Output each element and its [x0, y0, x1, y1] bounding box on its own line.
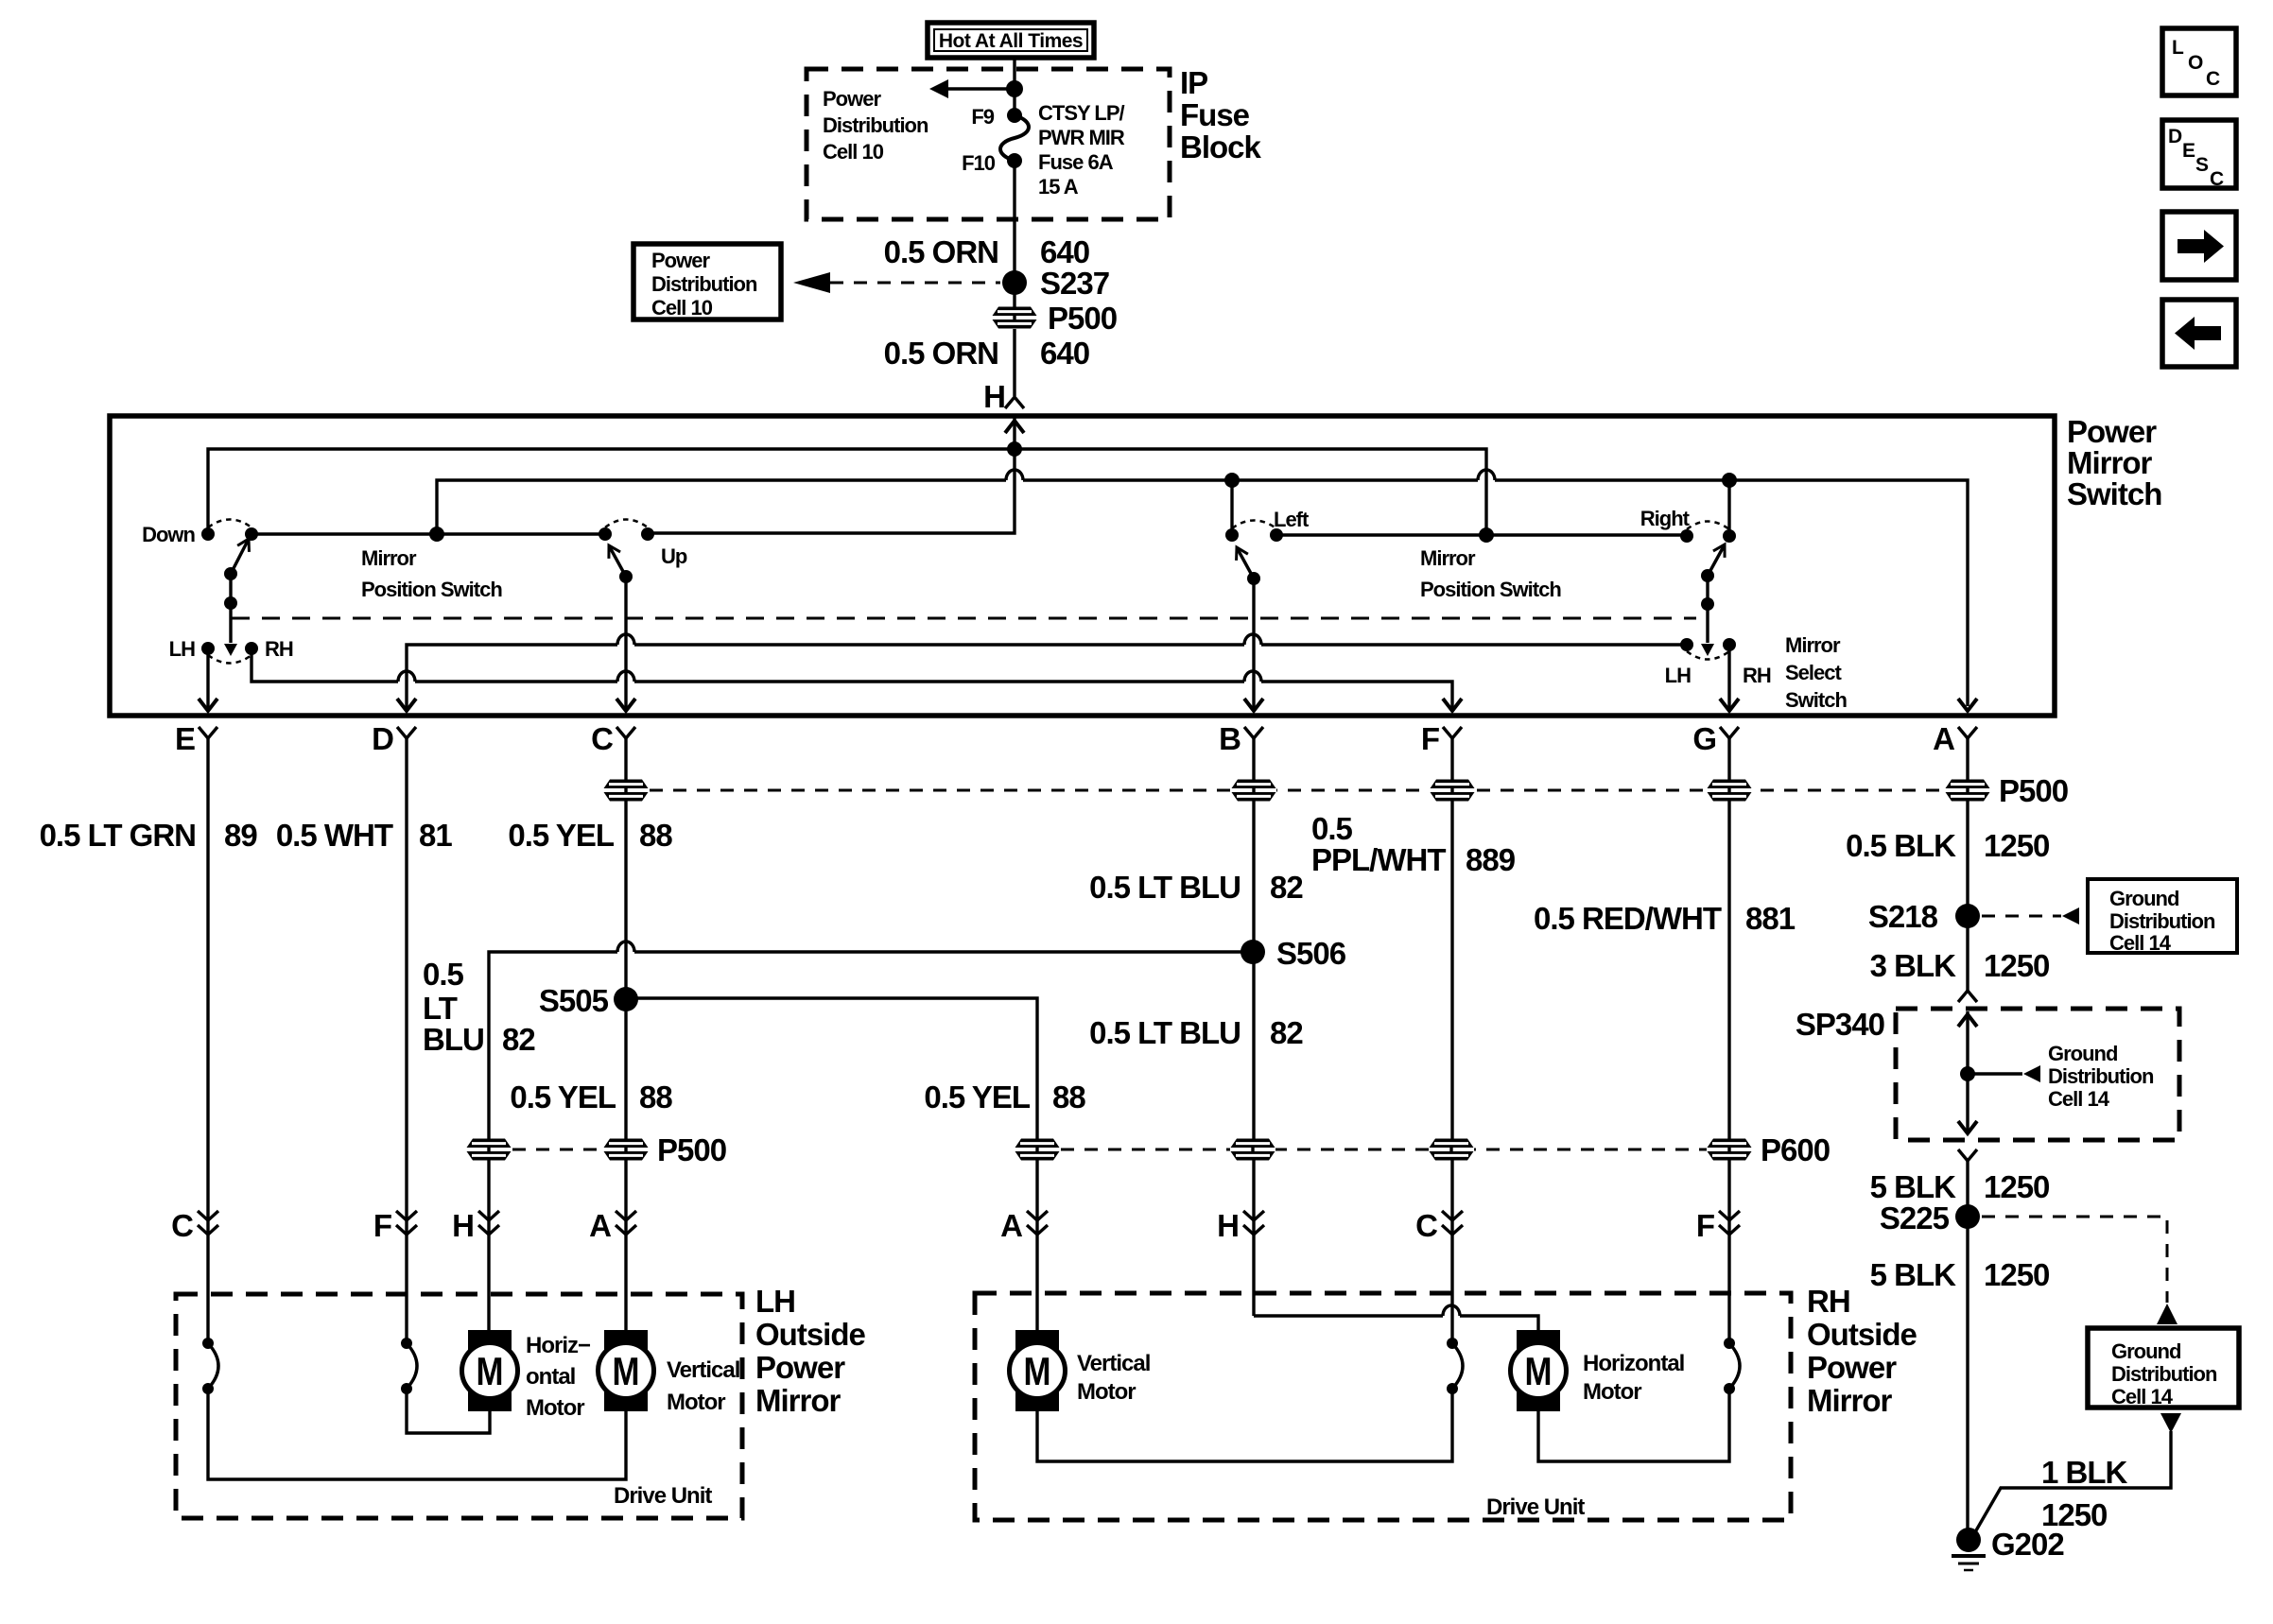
dashed reference arrow to Power Distribution [793, 272, 1000, 293]
svg-text:RH: RH [265, 637, 293, 661]
svg-text:0.5 RED/WHT: 0.5 RED/WHT [1534, 901, 1722, 936]
LH position switch common bar [252, 532, 605, 535]
LH drive contact C [202, 1338, 218, 1394]
hop of wire 2 over feed [1006, 470, 1023, 480]
connector RH F at P600 [1707, 1139, 1752, 1161]
svg-text:Drive Unit: Drive Unit [1486, 1494, 1585, 1520]
svg-text:Mirror: Mirror [361, 546, 417, 570]
node wire2/Right contact [1722, 473, 1737, 488]
wire LH F contact to horizontal motor [407, 1389, 490, 1433]
wire label 3 BLK 1250 [1870, 948, 2050, 983]
wire SP340 to G202 [1966, 1161, 1969, 1540]
switch contact Left [1225, 508, 1310, 542]
wire fuse to S237 [1013, 161, 1015, 283]
Vertical Motor label (LH) [667, 1357, 739, 1415]
svg-text:SP340: SP340 [1796, 1007, 1884, 1042]
hop over C wire [617, 942, 634, 952]
svg-text:Mirror: Mirror [1785, 633, 1841, 657]
wire label 0.5 LT BLU 82 (lower) [1089, 1015, 1303, 1050]
wire label 0.5 LT BLU 82 [1089, 870, 1303, 905]
Power Mirror Switch box [110, 416, 2055, 716]
svg-text:S225: S225 [1880, 1201, 1950, 1235]
LOC icon [2162, 28, 2236, 95]
connector RH H at P600 [1230, 1139, 1275, 1161]
svg-text:S506: S506 [1276, 936, 1346, 971]
svg-text:0.5 LT BLU: 0.5 LT BLU [1089, 1015, 1241, 1050]
arrow up at feed entry [1005, 421, 1024, 433]
wire label 0.5 WHT 81 [276, 818, 453, 853]
hop over C wire [617, 671, 634, 682]
connector B at P500 [1231, 780, 1276, 802]
wire S237 to P500 [1013, 283, 1015, 307]
svg-text:Cell 14: Cell 14 [2048, 1087, 2110, 1111]
node wire1/common bar [1479, 527, 1494, 543]
wire ground cell to G202 [1972, 1431, 2171, 1537]
svg-text:RH: RH [1807, 1284, 1850, 1319]
svg-text:0.5 BLK: 0.5 BLK [1846, 828, 1956, 863]
svg-text:F9: F9 [971, 105, 994, 129]
svg-text:Distribution: Distribution [651, 272, 757, 296]
svg-text:RH: RH [1743, 664, 1771, 687]
Ground Distribution Cell 14 box (S218) [2088, 879, 2237, 955]
svg-text:0.5 YEL: 0.5 YEL [924, 1080, 1030, 1114]
svg-text:LH: LH [169, 637, 195, 661]
pin H of RH mirror [1217, 1208, 1264, 1243]
DESC icon [2162, 120, 2236, 190]
select contact LH/RH (left) [169, 637, 293, 664]
svg-text:82: 82 [1270, 1015, 1303, 1050]
wire label 0.5 BLK 1250 [1846, 828, 2049, 863]
svg-text:L: L [2172, 37, 2184, 59]
svg-text:82: 82 [1270, 870, 1303, 905]
RH vertical motor M [1010, 1330, 1066, 1411]
dashed reference from S225 to ground cell [1982, 1217, 2178, 1324]
switch contact Right [1640, 507, 1736, 543]
Power Distribution Cell 10 box (left) [633, 244, 781, 320]
svg-text:1250: 1250 [1984, 948, 2049, 983]
wire to Left contact [1230, 480, 1233, 535]
connector LH H at P500 [466, 1139, 512, 1161]
wire D to LH mirror F [405, 738, 408, 1343]
connector P500 (feed) [992, 301, 1117, 336]
svg-text:PPL/WHT: PPL/WHT [1311, 842, 1446, 877]
svg-text:C: C [2210, 168, 2224, 190]
svg-text:CTSY LP/: CTSY LP/ [1038, 101, 1125, 125]
RH Outside Power Mirror label [1807, 1284, 1917, 1418]
wire from Hot box to fuse block [1013, 58, 1015, 89]
svg-text:Fuse 6A: Fuse 6A [1038, 150, 1114, 174]
Mirror Position Switch label (left) [361, 546, 502, 601]
svg-text:0.5 WHT: 0.5 WHT [276, 818, 393, 853]
pin H of Power Mirror Switch [983, 379, 1024, 414]
Ground Distribution Cell 14 box (G202) [2088, 1328, 2239, 1408]
node feed/wire1 junction [1007, 441, 1022, 457]
wire RH C contact to vertical motor [1037, 1389, 1452, 1461]
feed wire into switch (down to Up contact bar) [648, 416, 1015, 533]
svg-text:P500: P500 [1048, 301, 1117, 336]
svg-text:LH: LH [1665, 664, 1691, 687]
svg-text:Cell 10: Cell 10 [823, 140, 884, 164]
dashed reference to Ground Distribution [1982, 907, 2079, 924]
svg-text:A: A [1933, 721, 1954, 756]
wire C to LH mirror A [624, 738, 627, 1330]
svg-text:IP: IP [1180, 65, 1207, 100]
svg-text:C: C [591, 721, 613, 756]
pin G [1692, 721, 1739, 756]
LH Outside Power Mirror dashed box [176, 1294, 742, 1518]
splice S237 [1002, 266, 1109, 301]
wire F to RH mirror C [1450, 738, 1453, 1343]
svg-text:Outside: Outside [755, 1317, 865, 1352]
wire select LH to pin E [206, 648, 209, 709]
connector G at P500 [1707, 780, 1752, 802]
svg-text:5 BLK: 5 BLK [1870, 1257, 1957, 1292]
pin into SP340 [1958, 991, 1977, 1002]
pin arrows at box bottom [199, 699, 1977, 711]
SP340 internal bus [1958, 1011, 2040, 1134]
svg-text:O: O [2188, 52, 2203, 74]
svg-text:C: C [1415, 1208, 1437, 1243]
svg-text:0.5: 0.5 [1311, 811, 1353, 846]
svg-text:Motor: Motor [667, 1390, 725, 1415]
svg-text:5 BLK: 5 BLK [1870, 1169, 1957, 1204]
pin F [1421, 721, 1462, 756]
RH position switch common bar [1276, 533, 1687, 536]
svg-text:F10: F10 [962, 151, 996, 175]
wire S506 branch to LH mirror H [489, 952, 1253, 1330]
LH vertical motor M [599, 1330, 654, 1411]
wire label 0.5 PPL/WHT 889 [1311, 811, 1516, 877]
svg-text:0.5 ORN: 0.5 ORN [884, 336, 998, 371]
wire label 1 BLK 1250 [2041, 1455, 2128, 1532]
svg-text:889: 889 [1466, 842, 1516, 877]
movable contact Down/Up (left) [224, 536, 254, 580]
svg-text:1250: 1250 [1984, 1169, 2049, 1204]
svg-text:LH: LH [755, 1284, 795, 1319]
svg-text:Power: Power [651, 249, 710, 272]
wire RH F contact to horizontal motor [1538, 1389, 1729, 1461]
svg-text:Down: Down [142, 523, 195, 546]
svg-text:0.5 LT GRN: 0.5 LT GRN [40, 818, 196, 853]
wire label 0.5 RED/WHT 881 [1534, 901, 1796, 936]
pin H of LH mirror [452, 1208, 499, 1243]
svg-text:Mirror: Mirror [1420, 546, 1476, 570]
wire B to RH mirror H [1252, 738, 1255, 1316]
svg-text:E: E [2182, 140, 2195, 162]
connector F at P500 [1430, 780, 1475, 802]
movable contact Right [1701, 542, 1730, 583]
svg-text:82: 82 [502, 1022, 535, 1057]
svg-text:Power: Power [2067, 414, 2157, 449]
svg-text:D: D [2168, 126, 2182, 147]
wire 2 (second internal rail to pin A) [437, 480, 1968, 706]
svg-text:C: C [2206, 68, 2220, 90]
fuse value label [1038, 101, 1125, 199]
svg-text:Motor: Motor [1583, 1379, 1641, 1405]
connector RH A at P600 [1015, 1139, 1060, 1161]
svg-text:0.5: 0.5 [423, 957, 464, 992]
svg-text:640: 640 [1040, 234, 1089, 269]
pin A of LH mirror [589, 1208, 636, 1243]
svg-text:Vertical: Vertical [1077, 1351, 1150, 1376]
svg-text:Horiz−: Horiz− [526, 1333, 591, 1358]
svg-text:Power: Power [755, 1350, 845, 1385]
Hot At All Times box [928, 23, 1094, 58]
svg-text:Distribution: Distribution [823, 113, 928, 137]
hop over B wire [1244, 671, 1261, 682]
svg-text:Distribution: Distribution [2111, 1362, 2217, 1386]
wire select RH to pin F [252, 648, 1452, 709]
svg-text:H: H [1217, 1208, 1239, 1243]
connector RH C at P600 [1429, 1139, 1474, 1161]
svg-text:0.5 YEL: 0.5 YEL [508, 818, 614, 853]
svg-text:LT: LT [423, 991, 458, 1026]
Power Mirror Switch label [2067, 414, 2161, 511]
wire E to LH mirror C [206, 738, 209, 1343]
svg-text:Block: Block [1180, 130, 1262, 164]
pin C of LH mirror [171, 1208, 218, 1243]
svg-text:1250: 1250 [1984, 828, 2049, 863]
svg-text:G: G [1692, 721, 1716, 756]
pin E [175, 721, 217, 756]
svg-text:Distribution: Distribution [2109, 909, 2215, 933]
svg-text:S237: S237 [1040, 266, 1109, 301]
pin D [372, 721, 416, 756]
svg-text:0.5 LT BLU: 0.5 LT BLU [1089, 870, 1241, 905]
wire LH C contact to vertical motor [208, 1389, 626, 1479]
wire label 0.5 ORN 640 (lower) [884, 336, 1089, 371]
wire to Right contact [1727, 480, 1730, 536]
svg-text:Vertical: Vertical [667, 1357, 739, 1383]
node wire2/Left contact [1224, 473, 1240, 488]
wire B arm to pin B [1252, 579, 1255, 709]
wire 1 (upper internal rail) [208, 449, 1486, 535]
connector row 2 dashed (P600) [1037, 1149, 1729, 1151]
movable contact arm C (up) [603, 543, 633, 584]
wire label 0.5 LT GRN 89 [40, 818, 258, 853]
pin B [1219, 721, 1263, 756]
svg-text:F: F [373, 1208, 391, 1243]
svg-text:0.5 YEL: 0.5 YEL [510, 1080, 616, 1114]
svg-text:640: 640 [1040, 336, 1089, 371]
svg-text:81: 81 [419, 818, 452, 853]
hop over C wire [617, 634, 634, 645]
svg-text:Distribution: Distribution [2048, 1064, 2154, 1088]
wire label 0.5 YEL 88 [508, 818, 672, 853]
svg-text:Mirror: Mirror [1807, 1383, 1893, 1418]
wire C arm to pin C [624, 577, 627, 709]
pin F of LH mirror [373, 1208, 417, 1243]
wire select RH (right) to pin G [1727, 645, 1730, 709]
svg-text:S: S [2195, 154, 2209, 176]
svg-text:Up: Up [661, 544, 687, 568]
mirror select link (right) [1701, 576, 1714, 656]
fuse F9/F10 CTSY LP PWR MIR 15A [962, 105, 1029, 175]
svg-text:Mirror: Mirror [2067, 445, 2153, 480]
switch contact Down [142, 520, 258, 547]
RH drive contact F [1724, 1338, 1740, 1394]
splice S225 [1880, 1201, 1980, 1235]
svg-text:Left: Left [1274, 508, 1310, 531]
Vertical Motor label (RH) [1077, 1351, 1150, 1405]
svg-text:F: F [1421, 721, 1439, 756]
svg-text:Motor: Motor [1077, 1379, 1136, 1405]
splice pack SP340 dashed box [1896, 1009, 2179, 1140]
connector LH A at P500 [603, 1139, 649, 1161]
svg-text:Motor: Motor [526, 1395, 584, 1421]
LH horizontal motor M [462, 1330, 518, 1411]
svg-text:Outside: Outside [1807, 1317, 1917, 1352]
wire label 0.5 ORN 640 [884, 234, 1089, 269]
Horizontal Motor label (RH) [1583, 1351, 1684, 1405]
Mirror Select Switch label [1785, 633, 1847, 712]
svg-text:Switch: Switch [2067, 476, 2161, 511]
wire label 0.5 LT BLU 82 (branch) [423, 957, 535, 1057]
svg-text:Mirror: Mirror [755, 1383, 842, 1418]
wire S505 branch to RH mirror A [626, 998, 1037, 1330]
svg-text:Position Switch: Position Switch [361, 578, 502, 601]
svg-text:1250: 1250 [1984, 1257, 2049, 1292]
svg-text:ontal: ontal [526, 1364, 575, 1390]
LH Outside Power Mirror label [755, 1284, 865, 1418]
svg-text:Select: Select [1785, 661, 1842, 684]
svg-text:Horizontal: Horizontal [1583, 1351, 1684, 1376]
svg-text:Fuse: Fuse [1180, 97, 1250, 132]
svg-text:Right: Right [1640, 507, 1691, 530]
svg-text:A: A [1000, 1208, 1022, 1243]
svg-text:PWR MIR: PWR MIR [1038, 126, 1125, 149]
svg-text:88: 88 [639, 1080, 672, 1114]
splice S506 [1241, 936, 1346, 971]
Horizontal Motor label (LH) [526, 1333, 591, 1421]
svg-text:1 BLK: 1 BLK [2041, 1455, 2128, 1490]
wire RH H to horizontal motor [1254, 1316, 1538, 1330]
hop over D wire [398, 671, 415, 682]
svg-text:88: 88 [1052, 1080, 1085, 1114]
hop of wire 2 over wire 1 drop [1478, 470, 1495, 480]
arrow to Power Distribution [929, 79, 1015, 98]
svg-text:P500: P500 [657, 1132, 726, 1167]
LH drive contact F [401, 1338, 417, 1394]
svg-text:H: H [983, 379, 1005, 414]
Ground Distribution Cell 14 label (SP340) [2048, 1042, 2154, 1111]
svg-text:Power: Power [1807, 1350, 1897, 1385]
RH drive contact C [1447, 1338, 1463, 1394]
svg-text:Ground: Ground [2109, 887, 2178, 910]
arrow out of ground cell box [2160, 1413, 2181, 1433]
connector row P500 dashed [626, 789, 1950, 792]
wire label 5 BLK 1250 (lower) [1870, 1257, 2050, 1292]
pin A [1933, 721, 1977, 756]
svg-text:Drive Unit: Drive Unit [614, 1483, 712, 1509]
splice S218 [1868, 899, 1980, 934]
svg-text:P600: P600 [1761, 1132, 1830, 1167]
pin C [591, 721, 635, 756]
svg-text:881: 881 [1745, 901, 1796, 936]
wire label 5 BLK 1250 [1870, 1169, 2050, 1204]
svg-text:Ground: Ground [2048, 1042, 2117, 1065]
connector row 2 dashed (P500) [489, 1149, 626, 1151]
svg-text:G202: G202 [1991, 1527, 2064, 1562]
svg-text:Position Switch: Position Switch [1420, 578, 1561, 601]
svg-text:Power: Power [823, 87, 881, 111]
hop over RH C wire [1443, 1305, 1460, 1316]
svg-text:BLU: BLU [423, 1022, 484, 1057]
connector A at P500 [1945, 780, 1990, 802]
IP Fuse Block label [1180, 65, 1262, 164]
svg-text:Ground: Ground [2111, 1339, 2180, 1363]
svg-text:89: 89 [224, 818, 257, 853]
hop over B wire [1244, 634, 1261, 645]
svg-text:B: B [1219, 721, 1241, 756]
svg-text:A: A [589, 1208, 611, 1243]
pin C of RH mirror [1415, 1208, 1463, 1243]
svg-text:H: H [452, 1208, 474, 1243]
wire label 0.5 YEL 88 (RH) [924, 1080, 1085, 1114]
RH Outside Power Mirror dashed box [975, 1293, 1791, 1520]
movable contact Left (arm B) [1231, 544, 1260, 585]
svg-text:Switch: Switch [1785, 688, 1847, 712]
svg-text:Cell 10: Cell 10 [651, 296, 713, 320]
svg-text:Cell 14: Cell 14 [2109, 931, 2172, 955]
Power Distribution Cell 10 label (in fuse block) [823, 87, 928, 164]
select contact LH/RH (right) [1665, 638, 1771, 687]
wire P500 to H pin [1013, 329, 1015, 396]
switch contact Up [599, 520, 687, 569]
svg-text:0.5 ORN: 0.5 ORN [884, 234, 998, 269]
svg-text:15 A: 15 A [1038, 175, 1079, 199]
svg-text:C: C [171, 1208, 193, 1243]
svg-text:3 BLK: 3 BLK [1870, 948, 1957, 983]
wire G to RH mirror F [1727, 738, 1730, 1343]
wire junction to F9 [1013, 89, 1015, 115]
svg-text:P500: P500 [1999, 773, 2068, 808]
svg-text:F: F [1696, 1208, 1714, 1243]
right arrow icon [2162, 212, 2236, 280]
pin F of RH mirror [1696, 1208, 1740, 1243]
wire A down from switch [1966, 738, 1969, 991]
svg-text:S505: S505 [539, 983, 609, 1018]
IP Fuse Block dashed box [807, 69, 1170, 219]
mirror select link (left) [224, 574, 237, 656]
ground G202 [1952, 1527, 2064, 1570]
svg-text:Hot At All Times: Hot At All Times [939, 30, 1083, 52]
pin out of SP340 [1958, 1149, 1977, 1161]
node junction at fuse feed [1006, 80, 1023, 97]
wire select LH (right) to pin D [407, 645, 1687, 709]
select switch dashed guide line [232, 617, 1696, 620]
connector C at P500 [603, 780, 649, 802]
svg-text:S218: S218 [1868, 899, 1938, 934]
splice S505 [539, 983, 638, 1018]
svg-text:Cell 14: Cell 14 [2111, 1385, 2174, 1408]
svg-text:D: D [372, 721, 393, 756]
svg-text:E: E [175, 721, 195, 756]
RH horizontal motor M [1511, 1330, 1567, 1411]
left arrow icon [2162, 300, 2236, 367]
svg-text:88: 88 [639, 818, 672, 853]
node wire2/common bar [429, 527, 444, 542]
wire label 0.5 YEL 88 (LH) [510, 1080, 672, 1114]
Mirror Position Switch label (right) [1420, 546, 1561, 601]
pin A of RH mirror [1000, 1208, 1048, 1243]
